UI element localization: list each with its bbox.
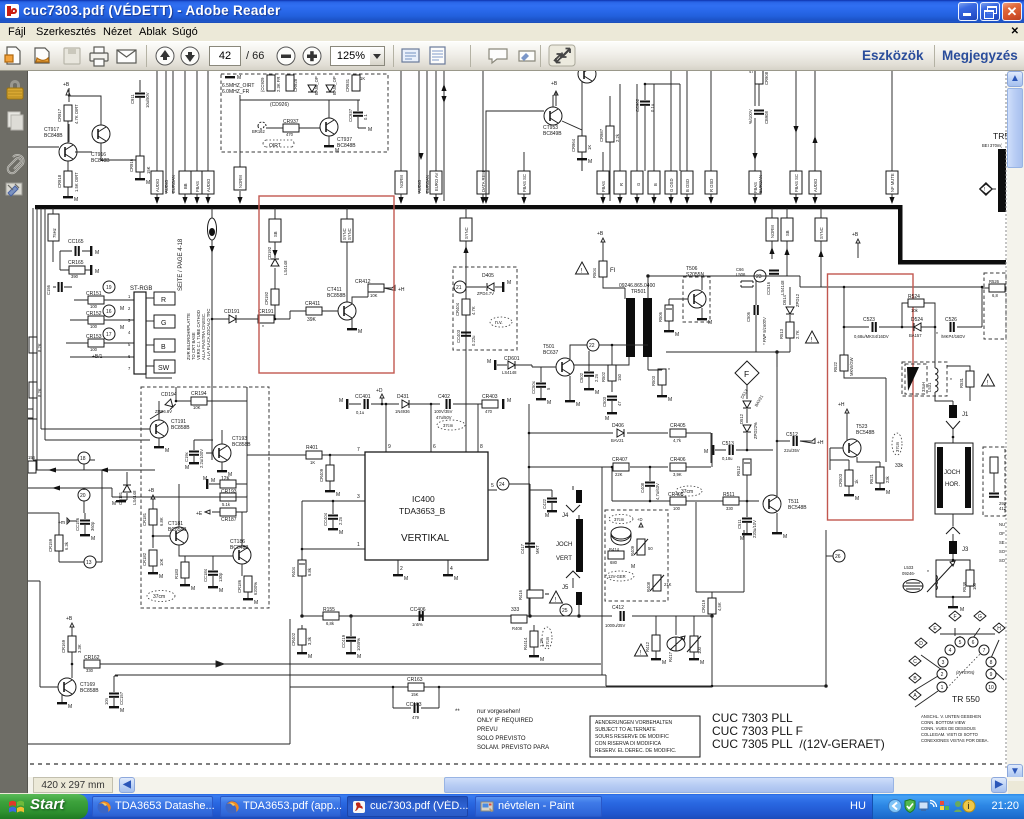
svg-text:C511: C511 [737, 519, 742, 529]
svg-text:M: M [308, 654, 312, 660]
node 26 [826, 550, 845, 562]
svg-text:EURO AV: EURO AV [434, 172, 439, 191]
svg-text:BAV21: BAV21 [754, 393, 765, 407]
svg-text:5: 5 [959, 640, 962, 646]
svg-text:FBAS: FBAS [195, 181, 200, 192]
svg-text:2.2n: 2.2n [338, 516, 343, 525]
connector diamond (TR5 feed) [980, 183, 992, 195]
pin box R [146, 292, 175, 305]
svg-text:CR411: CR411 [305, 301, 320, 307]
transistor T501 [532, 344, 648, 408]
svg-text:37cm: 37cm [443, 423, 454, 428]
resistor CR152 / node 16 [70, 305, 134, 329]
coil BR162 [258, 122, 266, 129]
transistor T511 [763, 441, 807, 540]
svg-text:M: M [368, 127, 372, 133]
svg-text:CD192: CD192 [267, 246, 272, 260]
label box SB [269, 208, 281, 319]
svg-text:M: M [595, 390, 599, 396]
svg-text:ZPD4.7V: ZPD4.7V [477, 291, 494, 296]
svg-text:M: M [112, 501, 116, 507]
svg-text:NORM: NORM [770, 225, 775, 238]
label box NORM (below bus right) [766, 208, 778, 259]
svg-text:10n: 10n [104, 697, 109, 705]
connector bead (video line) [208, 208, 217, 460]
resistor CR917 [57, 82, 79, 124]
svg-text:R4414: R4414 [523, 637, 528, 650]
svg-text:CB908: CB908 [764, 111, 769, 124]
svg-text:C503: C503 [602, 396, 607, 407]
svg-text:CUC 7303 PLL F: CUC 7303 PLL F [712, 724, 803, 738]
svg-text:CR165: CR165 [68, 260, 84, 266]
svg-text:G: G [978, 614, 982, 620]
svg-text:10K: 10K [159, 558, 164, 566]
resistor CR159 [28, 513, 69, 562]
svg-text:6,8: 6,8 [992, 293, 998, 298]
svg-text:8: 8 [480, 444, 483, 450]
svg-text:100: 100 [90, 304, 98, 309]
svg-text:AUDIO: AUDIO [164, 179, 169, 193]
svg-text:FBAS SC: FBAS SC [794, 174, 799, 192]
node 21 [454, 281, 486, 293]
svg-text:8: 8 [990, 660, 993, 666]
pin box B [146, 339, 175, 352]
svg-text:M: M [237, 75, 241, 81]
svg-text:CR918: CR918 [57, 174, 62, 188]
transistor CT411 [322, 287, 368, 335]
svg-text:CON RISERVA DI MODIFICA: CON RISERVA DI MODIFICA [595, 741, 662, 747]
svg-text:1: 1 [941, 685, 944, 691]
transformer TR501 [570, 276, 754, 370]
capacitor C523 [843, 286, 935, 356]
resistor CR411 [290, 301, 322, 323]
svg-text:10n5%: 10n5% [356, 638, 361, 651]
svg-text:+B: +B [551, 81, 558, 87]
svg-text:+E: +E [196, 511, 203, 517]
wire: top signal drops group C (right) [755, 71, 892, 201]
svg-text:PREVU: PREVU [477, 727, 498, 733]
sidebar [0, 71, 28, 793]
svg-text:6.8K: 6.8K [159, 517, 164, 526]
resistor CR162 [84, 655, 100, 673]
svg-text:22u/35V: 22u/35V [784, 448, 800, 453]
svg-text:6.8k: 6.8k [307, 567, 312, 576]
svg-text:100: 100 [972, 582, 977, 590]
svg-text:BA157: BA157 [909, 333, 922, 338]
svg-text:R401: R401 [306, 445, 318, 451]
svg-text:FI: FI [610, 268, 616, 274]
field diamond F [735, 361, 759, 385]
svg-text:J5: J5 [562, 585, 569, 591]
svg-text:CR194: CR194 [191, 391, 207, 397]
svg-text:AUDIO: AUDIO [417, 179, 422, 193]
svg-text:M: M [120, 306, 124, 312]
transistor CT191 [141, 401, 190, 454]
svg-text:SEITE / PAGE 4-18: SEITE / PAGE 4-18 [178, 238, 184, 291]
svg-text:COLLEGAM. VISTI DI SOTTO: COLLEGAM. VISTI DI SOTTO [921, 732, 979, 737]
resistor CR186 [237, 576, 258, 606]
svg-text:NF MUTE: NF MUTE [890, 173, 895, 192]
svg-text:CR192: CR192 [264, 291, 269, 305]
row D406/CR405 [529, 404, 711, 463]
svg-text:M: M [855, 496, 859, 502]
resistor CR412 / +H out [352, 279, 405, 298]
svg-text:CR163: CR163 [407, 677, 423, 683]
svg-text:H: H [997, 626, 1001, 632]
svg-text:M: M [675, 332, 679, 338]
svg-text:1K: 1K [360, 76, 365, 81]
resistor R502 [601, 344, 622, 392]
resistor R503 [648, 368, 672, 403]
window title bar [0, 0, 1024, 23]
svg-text:*: * [950, 378, 952, 384]
node 25 [560, 604, 572, 616]
svg-text:D514: D514 [782, 294, 787, 305]
svg-text:3: 3 [942, 660, 945, 666]
capacitor C417 [520, 484, 540, 560]
svg-text:*: * [927, 570, 929, 576]
svg-text:37cm: 37cm [614, 517, 625, 522]
diode CD191 / resistor CR191 row [211, 309, 290, 331]
svg-text:+H: +H [838, 402, 845, 408]
svg-text:37cm: 37cm [895, 441, 900, 452]
transistor CT186 [230, 512, 251, 576]
svg-text:CR182: CR182 [142, 552, 147, 566]
capacitor CC184 [203, 556, 223, 594]
resistor R512 [736, 459, 751, 501]
svg-text:R408: R408 [512, 626, 523, 631]
svg-text:3,3k: 3,3k [307, 636, 312, 645]
vertical scrollbar [1007, 71, 1024, 781]
svg-text:CUC 7303 PLL: CUC 7303 PLL [712, 711, 793, 725]
IC ground pins 2/4 [393, 560, 458, 582]
svg-text:R513: R513 [779, 328, 784, 339]
svg-text:M: M [254, 600, 258, 606]
resistor R408 333 [511, 607, 527, 631]
node 24 [488, 478, 530, 510]
svg-text:33uH: 33uH [921, 382, 926, 392]
diode CD601 [487, 356, 532, 375]
resistor 156 (page edge) [28, 455, 36, 473]
svg-text:+H: +H [817, 440, 824, 446]
svg-text:1: 1 [357, 542, 360, 548]
svg-text:R531: R531 [959, 377, 964, 388]
svg-text:CD191: CD191 [224, 309, 240, 315]
svg-text:JOCH: JOCH [944, 470, 960, 476]
svg-text:RESERV. EL DEREC. DE MODIFIC.: RESERV. EL DEREC. DE MODIFIC. [595, 748, 676, 754]
svg-text:M: M [704, 449, 708, 455]
svg-text:BC858B: BC858B [327, 293, 346, 299]
svg-text:M: M [540, 657, 544, 663]
svg-text:LS4148: LS4148 [780, 280, 785, 295]
svg-text:G: G [636, 183, 641, 186]
svg-text:3: 3 [128, 318, 131, 323]
svg-text:5: 5 [491, 483, 494, 489]
svg-text:R OSD: R OSD [709, 179, 714, 192]
svg-text:M: M [95, 250, 99, 256]
svg-text:+B: +B [597, 231, 604, 237]
svg-text:M: M [185, 465, 189, 471]
svg-text:M: M [91, 536, 95, 542]
svg-text:9: 9 [990, 672, 993, 678]
svg-text:CR405: CR405 [668, 492, 684, 498]
resistor CR181 [142, 488, 164, 548]
svg-text:R511: R511 [723, 492, 735, 498]
resistor CR165 + ground [60, 251, 99, 279]
svg-text:ZPD6.8V: ZPD6.8V [155, 409, 172, 414]
svg-text:R522: R522 [833, 361, 838, 372]
svg-text:M: M [507, 398, 511, 404]
transistor T523 [830, 402, 880, 470]
pot row R412/R417 [635, 616, 705, 666]
diode CD181 [112, 472, 137, 507]
node 20 [28, 486, 247, 514]
capacitor CC516 [766, 271, 785, 296]
svg-text:B: B [161, 344, 166, 351]
capacitor CC156 [58, 513, 95, 542]
svg-text:2.2u/100V: 2.2u/100V [199, 449, 204, 468]
svg-text:TR501: TR501 [631, 289, 646, 295]
svg-text:M: M [547, 400, 551, 406]
svg-text:BC858B: BC858B [171, 425, 190, 431]
warning triangle (vert drive) [576, 262, 589, 275]
svg-text:R: R [161, 297, 166, 304]
label box SYNC (centre drop) [460, 208, 472, 455]
svg-text:L531: L531 [927, 382, 932, 392]
svg-text:R526: R526 [989, 279, 1000, 284]
resistor CR163 parallel CC163 [290, 677, 712, 720]
svg-text:M: M [219, 588, 223, 594]
svg-text:1n5%: 1n5% [412, 622, 423, 627]
diode CD192 [267, 246, 288, 275]
svg-text:SO: SO [999, 549, 1006, 554]
note page-edge cut text [999, 522, 1006, 563]
svg-text:C156: C156 [46, 284, 51, 295]
svg-text:D406: D406 [612, 423, 624, 429]
node arrowheads at bus [154, 84, 894, 204]
svg-text:37cm: 37cm [545, 636, 550, 647]
svg-text:2: 2 [128, 306, 131, 311]
transistor (top edge) [578, 65, 596, 171]
svg-text:47: 47 [617, 401, 622, 406]
svg-text:150: 150 [617, 373, 622, 381]
svg-text:M: M [700, 660, 704, 666]
dashed block CT181/CT191 (RGB clamp) [141, 387, 269, 608]
svg-text:B OSD: B OSD [685, 179, 690, 192]
svg-text:LS4148: LS4148 [502, 370, 517, 375]
capacitor CC403 [456, 329, 476, 346]
svg-text:4,5K: 4,5K [717, 602, 722, 611]
connector J3 [946, 514, 969, 554]
svg-text:CONN. BOTTOM VIEW: CONN. BOTTOM VIEW [921, 720, 965, 725]
svg-text:R414: R414 [609, 547, 620, 552]
rail wires centre-right [647, 275, 982, 367]
svg-text:18: 18 [80, 456, 86, 462]
svg-text:!: ! [984, 187, 985, 193]
svg-text:33k: 33k [895, 463, 904, 469]
svg-text:330: 330 [86, 668, 94, 673]
transistor CT193 [203, 430, 251, 482]
svg-text:AUDIO: AUDIO [813, 178, 818, 192]
resistor R526 (dashed spare) [982, 273, 1006, 339]
svg-text:7: 7 [357, 447, 360, 453]
svg-text:SE: SE [999, 540, 1005, 545]
svg-text:DATA REM: DATA REM [481, 171, 486, 192]
svg-text:10K: 10K [370, 293, 378, 298]
resistor CR523 [838, 470, 859, 502]
svg-text:+B/1: +B/1 [92, 354, 103, 360]
svg-text:*: * [936, 332, 938, 338]
toolbar [0, 41, 1024, 71]
svg-text:%/100V: %/100V [748, 109, 753, 124]
svg-text:19: 19 [106, 285, 112, 291]
flyback coil L531 [902, 362, 953, 405]
wire: top signal drops group A (left) [69, 71, 240, 201]
transistor CT917 [28, 88, 77, 171]
svg-text:M: M [357, 654, 361, 660]
resistor CR151 / node 19 [74, 281, 134, 309]
resistor CR931 [352, 75, 360, 91]
svg-text:BC858B: BC858B [168, 527, 187, 533]
svg-text:R502: R502 [601, 371, 606, 382]
resistor CR937 [283, 124, 299, 132]
svg-text:SOLAM. PREVISTO PARA: SOLAM. PREVISTO PARA [477, 745, 549, 751]
svg-text:BA56_OP: BA56_OP [332, 76, 337, 95]
svg-text:5.1k: 5.1k [222, 502, 231, 507]
note AENDERUNGEN box [590, 716, 700, 757]
svg-text:M: M [211, 478, 215, 484]
svg-text:CR193: CR193 [221, 489, 237, 495]
svg-text:C417: C417 [520, 543, 525, 554]
damping network (dashed) [983, 447, 1007, 516]
svg-text:CC156: CC156 [75, 517, 80, 531]
svg-text:D512: D512 [739, 413, 744, 424]
page crop dashed border bottom [30, 763, 1005, 765]
svg-text:100: 100 [90, 324, 98, 329]
svg-text:CC157: CC157 [119, 691, 124, 705]
svg-text:R409: R409 [630, 545, 635, 556]
resistor CR187 / +E [196, 497, 247, 523]
node 22 [587, 339, 599, 351]
svg-text:1K: 1K [310, 460, 315, 465]
svg-text:47: 47 [749, 71, 754, 74]
svg-text:10K: 10K [193, 405, 201, 410]
svg-text:CR406: CR406 [670, 457, 686, 463]
wire inner bus [240, 95, 360, 152]
svg-text:**: ** [455, 709, 460, 715]
svg-text:6.0MHZ_FR: 6.0MHZ_FR [222, 89, 250, 95]
svg-text:0.22u: 0.22u [471, 335, 476, 346]
diode D512 [739, 413, 758, 450]
note nur vorgesehen block [455, 709, 549, 751]
capacitor C408 [640, 466, 660, 501]
svg-text:BAV21: BAV21 [611, 438, 624, 443]
resistor left edge 8.2K b [28, 382, 42, 418]
svg-text:(CD926): (CD926) [270, 102, 289, 108]
svg-text:333: 333 [511, 607, 520, 613]
resistor CR404 [455, 299, 476, 316]
capacitor CC165 + ground [60, 239, 99, 256]
svg-text:BR162: BR162 [252, 129, 265, 134]
diode D431 [395, 394, 440, 414]
connector J4 / deflection JOCH VERT [556, 486, 583, 572]
svg-text:R: R [619, 183, 624, 186]
svg-text:412: 412 [999, 506, 1007, 511]
resistor left edge 8.2K [29, 337, 42, 353]
svg-text:M: M [68, 704, 72, 710]
transistor CT169 stage [28, 581, 99, 710]
label box SB (below bus right) [781, 208, 793, 276]
svg-text:TR 550: TR 550 [952, 694, 980, 704]
svg-text:+B: +B [852, 232, 859, 238]
capacitor C511 [737, 501, 757, 542]
svg-text:R417: R417 [668, 651, 673, 662]
svg-text:0.1u: 0.1u [650, 103, 655, 112]
svg-text:MKW/GW: MKW/GW [849, 357, 854, 376]
svg-text:23: 23 [756, 274, 762, 280]
resistor CR918 + ground [57, 171, 79, 203]
transistor CT916 [68, 96, 140, 164]
label box SYNC (left) [341, 208, 353, 302]
dashed block D405 sync clamp [453, 267, 517, 350]
svg-text:75Hz: 75Hz [52, 228, 57, 238]
svg-text:M: M [783, 534, 787, 540]
svg-text:0,18u: 0,18u [722, 456, 733, 461]
svg-text:CD194: CD194 [161, 392, 177, 398]
resistor CR419 [696, 433, 744, 687]
svg-text:EUROAN: EUROAN [171, 175, 176, 193]
svg-text:1k: 1k [854, 479, 859, 484]
svg-text:330: 330 [726, 506, 734, 511]
capacitor C192 [184, 440, 213, 471]
svg-text:BC848B: BC848B [337, 143, 356, 149]
diode CD928 [308, 85, 316, 92]
long routing wires (lower left) [28, 619, 290, 744]
svg-text:C412: C412 [612, 605, 624, 611]
svg-text:J3: J3 [962, 547, 969, 553]
resistor R401 / pin 7 [247, 445, 365, 465]
svg-text:+D: +D [376, 388, 383, 394]
svg-text:HOR.: HOR. [945, 482, 960, 488]
svg-text:2.7K: 2.7K [795, 330, 800, 339]
svg-text:R183: R183 [174, 568, 179, 579]
capacitor C502 [579, 351, 599, 396]
svg-text:SYNC: SYNC [347, 228, 352, 240]
warning triangle (vert out) [550, 591, 563, 604]
svg-text:AENDERUNGEN VORBEHALTEN: AENDERUNGEN VORBEHALTEN [595, 720, 673, 726]
svg-text:3.3K: 3.3K [77, 644, 82, 653]
resistor CR402 [291, 625, 312, 660]
capacitor CC419 [341, 616, 361, 660]
resistor 12K row [206, 401, 247, 489]
svg-text:VERTIKAL: VERTIKAL [401, 533, 450, 544]
svg-text:CR159: CR159 [48, 538, 53, 552]
svg-text:13: 13 [86, 560, 92, 566]
svg-text:M: M [708, 320, 712, 326]
capacitor CB908 [748, 109, 769, 124]
svg-text:JOCH: JOCH [556, 542, 572, 548]
svg-text:CR964: CR964 [571, 138, 576, 152]
svg-text:37cm: 37cm [153, 594, 165, 600]
svg-text:D431: D431 [397, 394, 409, 400]
tuned circuit L533 [902, 554, 970, 613]
svg-text:C402: C402 [438, 394, 450, 400]
capacitor C503 [602, 396, 622, 422]
svg-text:M: M [454, 576, 458, 582]
resistor R521 [869, 433, 904, 496]
svg-text:0,68u/MKS4/16DV: 0,68u/MKS4/16DV [854, 334, 889, 339]
svg-text:+B: +B [148, 488, 155, 494]
